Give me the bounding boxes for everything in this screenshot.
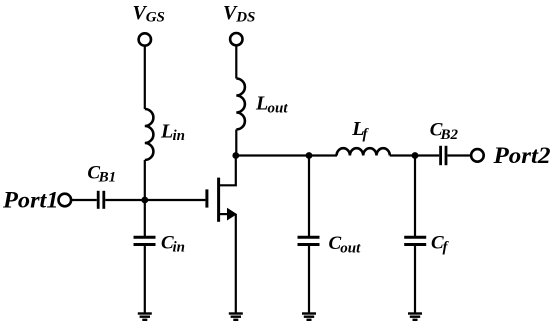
svg-text:out: out [268,101,289,117]
capacitor Cout [298,237,320,244]
svg-text:DS: DS [235,10,255,26]
inductor Lout [236,79,245,130]
wire Cout drop [308,156,310,237]
label V_DS [223,2,255,26]
label V_GS [133,2,165,26]
wire Lin to Cin [144,160,146,236]
label Lf [351,118,369,143]
svg-text:B1: B1 [98,170,117,186]
node drain [232,152,239,159]
svg-text:L: L [160,121,173,143]
svg-text:in: in [173,128,186,144]
svg-text:Port2: Port2 [492,143,550,168]
wire Cf to ground [414,246,416,313]
terminal V_DS [230,33,242,45]
wire V_GS stem [144,46,146,109]
label CB2 [430,120,459,144]
wire V_DS stem [235,46,237,79]
wire CB2 to Port2 [447,154,470,156]
terminal V_GS [139,33,151,45]
wire CB1 to gate [105,199,205,201]
wire Cf drop [414,156,416,237]
svg-text:out: out [340,240,361,256]
wire Port1 to CB1 [72,199,97,201]
svg-text:GS: GS [146,10,165,26]
label Lin [160,121,185,144]
ground G2 [229,314,243,320]
wire drain to Lf [236,154,337,156]
inductor Lin [145,109,154,160]
wire source to ground [235,214,237,313]
label CB1 [87,162,116,185]
inductor Lf [337,148,390,155]
transistor M1 source lead [219,213,232,215]
node gate junction [141,197,148,204]
capacitor CB2 [441,146,446,165]
transistor M1 drain lead [219,156,236,186]
wire Lf to CB2 [390,154,439,156]
terminal Port1 [59,194,72,207]
transistor M1 source arrow [227,208,237,221]
wire Lout to drain node [235,130,237,156]
label Cout [329,233,362,256]
ground G4 [408,314,422,320]
wire Cin to ground [144,246,146,313]
transistor M1 channel bar [217,178,220,222]
terminal Port2 [471,149,484,162]
node Cf [412,152,419,159]
svg-text:B2: B2 [440,127,459,143]
label Cf [431,232,450,255]
capacitor Cin [134,237,156,244]
capacitor Cf [404,237,426,244]
label Lout [255,93,288,117]
node Cout [306,152,313,159]
transistor M1 gate bar [205,189,208,207]
label Cin [161,232,185,255]
svg-text:in: in [173,240,186,256]
svg-text:L: L [255,93,268,115]
svg-text:Port1: Port1 [2,187,59,212]
capacitor CB1 [98,191,104,209]
ground G1 [138,314,152,320]
ground G3 [302,314,316,320]
wire Cout to ground [308,246,310,313]
